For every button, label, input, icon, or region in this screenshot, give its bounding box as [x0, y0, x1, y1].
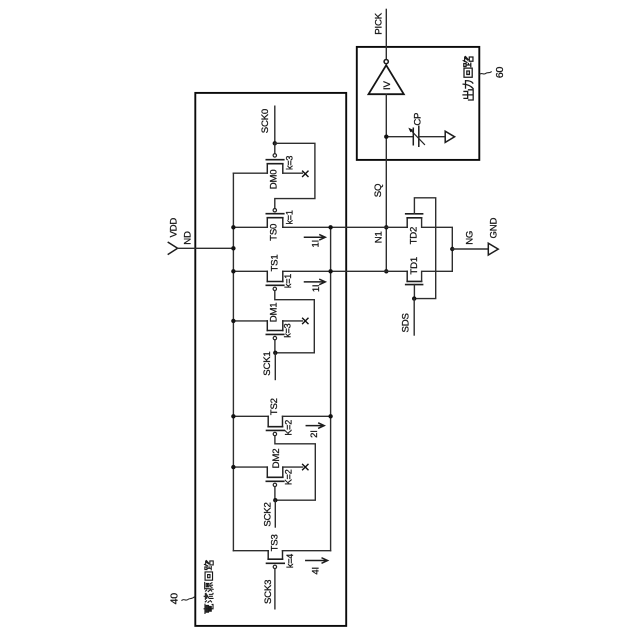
svg-text:SDS: SDS	[400, 313, 411, 332]
svg-text:k=1: k=1	[285, 210, 295, 224]
junction dot CP node	[384, 135, 388, 139]
junction dot trunk TS0	[231, 225, 235, 229]
junction dot trunk TS2	[231, 414, 235, 418]
svg-text:SQ: SQ	[373, 184, 384, 197]
svg-text:k=1: k=1	[283, 274, 293, 288]
junction dot trunk VDD	[231, 246, 235, 250]
wire TS1 gate loop to SCK1	[275, 291, 315, 353]
junction dot trunk TS1	[231, 269, 235, 273]
current arrow 2I (TS2)	[306, 423, 324, 428]
svg-text:ND: ND	[182, 231, 193, 245]
svg-text:60: 60	[494, 67, 506, 79]
transistor TS1	[233, 271, 283, 290]
junction dot N1 lower	[384, 269, 388, 273]
svg-text:SCK1: SCK1	[262, 351, 273, 375]
op-amp inverter IV bubble	[384, 60, 388, 64]
transistor DM2	[233, 467, 302, 500]
wire SCK0 loop to TS0 gate	[275, 143, 315, 208]
transistor TS2	[233, 416, 330, 435]
wire NG to GND	[452, 248, 488, 250]
transistor TS3	[233, 551, 330, 569]
svg-text:k=3: k=3	[282, 323, 292, 337]
svg-text:K=2: K=2	[284, 420, 294, 436]
svg-text:SCK0: SCK0	[260, 109, 271, 133]
current arrow 1I (TS0)	[305, 235, 326, 240]
wire SCK0 stub	[274, 106, 276, 143]
svg-text:VDD: VDD	[169, 218, 180, 238]
svg-text:40: 40	[168, 593, 180, 605]
op-amp inverter U IV input wire	[385, 47, 387, 60]
wire TD2 gate loop to SDS	[414, 198, 436, 299]
svg-text:CP: CP	[412, 113, 423, 126]
squiggle to 60	[480, 72, 491, 74]
wire VDD to trunk	[178, 247, 234, 249]
svg-text:SCK3: SCK3	[263, 580, 274, 604]
wire SDS stub	[413, 299, 415, 335]
svg-text:TS2: TS2	[269, 398, 280, 415]
svg-text:DM1: DM1	[269, 303, 280, 323]
svg-text:TS0: TS0	[269, 224, 280, 241]
junction dot right trunk TS2	[328, 414, 332, 418]
junction dot trunk DM1	[231, 319, 235, 323]
wire TS2 gate loop to SCK2	[275, 436, 315, 500]
svg-text:DM0: DM0	[268, 170, 279, 190]
svg-text:GND: GND	[488, 217, 499, 238]
ground GND symbol triangle	[488, 243, 498, 255]
transistor TS0	[233, 209, 283, 228]
junction dot right trunk TS1	[328, 269, 332, 273]
capacitor CP variable arrow	[410, 129, 425, 144]
svg-text:TD2: TD2	[409, 227, 420, 245]
wire CP to common symbol	[419, 136, 445, 138]
svg-text:TS1: TS1	[270, 255, 281, 272]
current arrow 4I (TS3)	[306, 558, 328, 563]
transistor TD2	[406, 214, 453, 249]
junction dot N1 upper	[384, 225, 388, 229]
transistor DM1	[233, 321, 302, 353]
svg-text:NG: NG	[464, 231, 475, 245]
svg-text:DM2: DM2	[271, 449, 282, 469]
label 電流源回路 (current source circuit)	[204, 561, 213, 614]
wire PICK stub	[385, 9, 387, 47]
junction dot right trunk TS0	[328, 225, 332, 229]
wire SQ vertical main line	[385, 94, 387, 271]
wire right trunk	[330, 227, 332, 550]
power VDD symbol chevron	[168, 242, 177, 254]
wire SCK3 gate lead	[274, 569, 276, 609]
junction dot SCK2	[273, 498, 277, 502]
svg-text:TS3: TS3	[269, 534, 280, 551]
wire SCK2 stub	[274, 500, 276, 527]
wire TS1 drain to TD1 source (y=271.3)	[283, 270, 407, 272]
junction dot SCK1	[273, 351, 277, 355]
svg-text:k=4: k=4	[285, 554, 295, 568]
no-connect X mark DM1	[303, 318, 308, 323]
wire TS0 drain to TD2 source (y=227.3)	[283, 226, 407, 228]
svg-text:IV: IV	[382, 80, 393, 89]
svg-text:1I: 1I	[311, 240, 322, 248]
no-connect X mark DM2	[303, 464, 308, 469]
svg-text:K=2: K=2	[283, 469, 293, 485]
junction dot trunk DM2	[231, 465, 235, 469]
svg-text:k=3: k=3	[284, 156, 294, 170]
svg-text:1I: 1I	[311, 285, 322, 293]
wire left trunk ND	[232, 173, 234, 551]
svg-text:SCK2: SCK2	[263, 502, 274, 526]
label 出力回路 (output circuit)	[463, 57, 473, 100]
svg-text:2I: 2I	[309, 430, 320, 438]
common/ground triangle in output box	[445, 131, 454, 142]
no-connect X mark DM0	[303, 171, 308, 176]
svg-text:N1: N1	[373, 231, 384, 243]
wire SCK1 stub	[274, 353, 276, 380]
op-amp inverter IV triangle	[369, 65, 404, 94]
junction dot NG	[450, 247, 454, 251]
squiggle to 40	[182, 597, 195, 601]
wire to capacitor CP	[386, 136, 413, 138]
current arrow 1I (TS1)	[305, 279, 326, 284]
transistor TD1	[406, 249, 453, 299]
output circuit box 60	[357, 47, 480, 160]
junction dot SCK0	[273, 141, 277, 145]
svg-text:PICK: PICK	[374, 12, 385, 34]
svg-text:4I: 4I	[311, 567, 322, 575]
svg-text:TD1: TD1	[409, 257, 420, 275]
current source circuit box 40	[195, 93, 346, 626]
node SDS junction dot	[412, 296, 416, 300]
transistor DM0	[233, 143, 302, 173]
capacitor CP plates	[413, 126, 419, 146]
